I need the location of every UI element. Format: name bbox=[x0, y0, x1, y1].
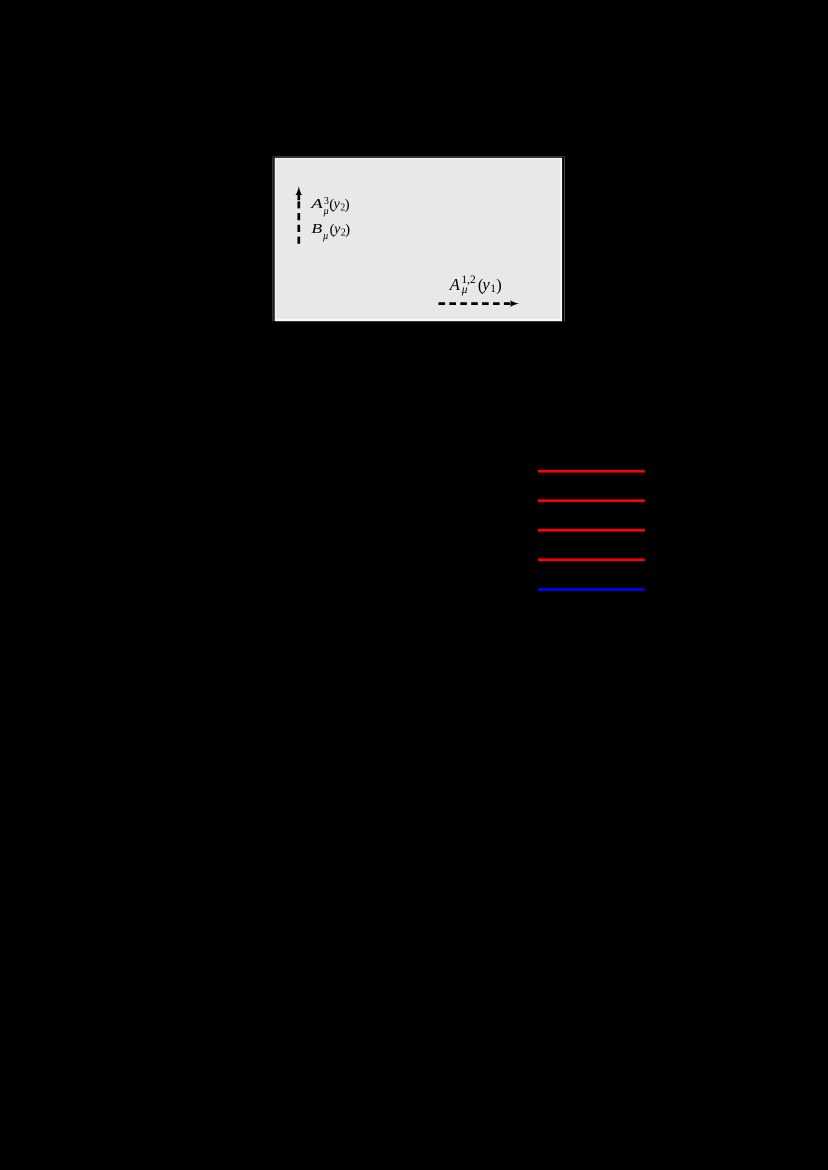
energy level line 1 (red) bbox=[538, 470, 645, 473]
svg-text:A: A bbox=[449, 275, 461, 294]
svg-text:μ: μ bbox=[461, 284, 468, 296]
energy level line 2 (red) bbox=[538, 499, 645, 502]
svg-text:3: 3 bbox=[324, 196, 329, 207]
energy level line 4 (red) bbox=[538, 558, 645, 561]
svg-text:B: B bbox=[311, 222, 322, 237]
energy level line 3 (red) bbox=[538, 529, 645, 532]
svg-text:y: y bbox=[480, 275, 490, 294]
figure box gray fill bbox=[276, 158, 561, 319]
svg-text:): ) bbox=[496, 275, 502, 294]
horizontal arrow head bbox=[510, 300, 519, 307]
vertical arrow head bbox=[295, 186, 302, 195]
energy level line 5 (blue, ground) bbox=[538, 588, 645, 591]
figure box outer faint frame top bbox=[273, 156, 565, 158]
vertical dashed arrow shaft bbox=[297, 201, 300, 243]
horizontal dashed arrow shaft bbox=[439, 302, 512, 305]
svg-text:): ) bbox=[345, 222, 350, 238]
label A^{1,2}_mu(y1) bbox=[449, 274, 502, 296]
svg-text:μ: μ bbox=[322, 231, 328, 242]
figure box outer faint frame right bbox=[564, 157, 566, 322]
vertical arrow head stem bbox=[297, 192, 300, 200]
svg-text:μ: μ bbox=[323, 206, 329, 217]
figure box outer faint frame left bbox=[272, 157, 274, 322]
figure box white border bbox=[275, 158, 562, 321]
svg-text:): ) bbox=[345, 197, 350, 213]
label B_mu(y2) bbox=[311, 222, 350, 242]
svg-text:A: A bbox=[310, 197, 323, 212]
label A^3_mu(y2) bbox=[310, 196, 350, 217]
